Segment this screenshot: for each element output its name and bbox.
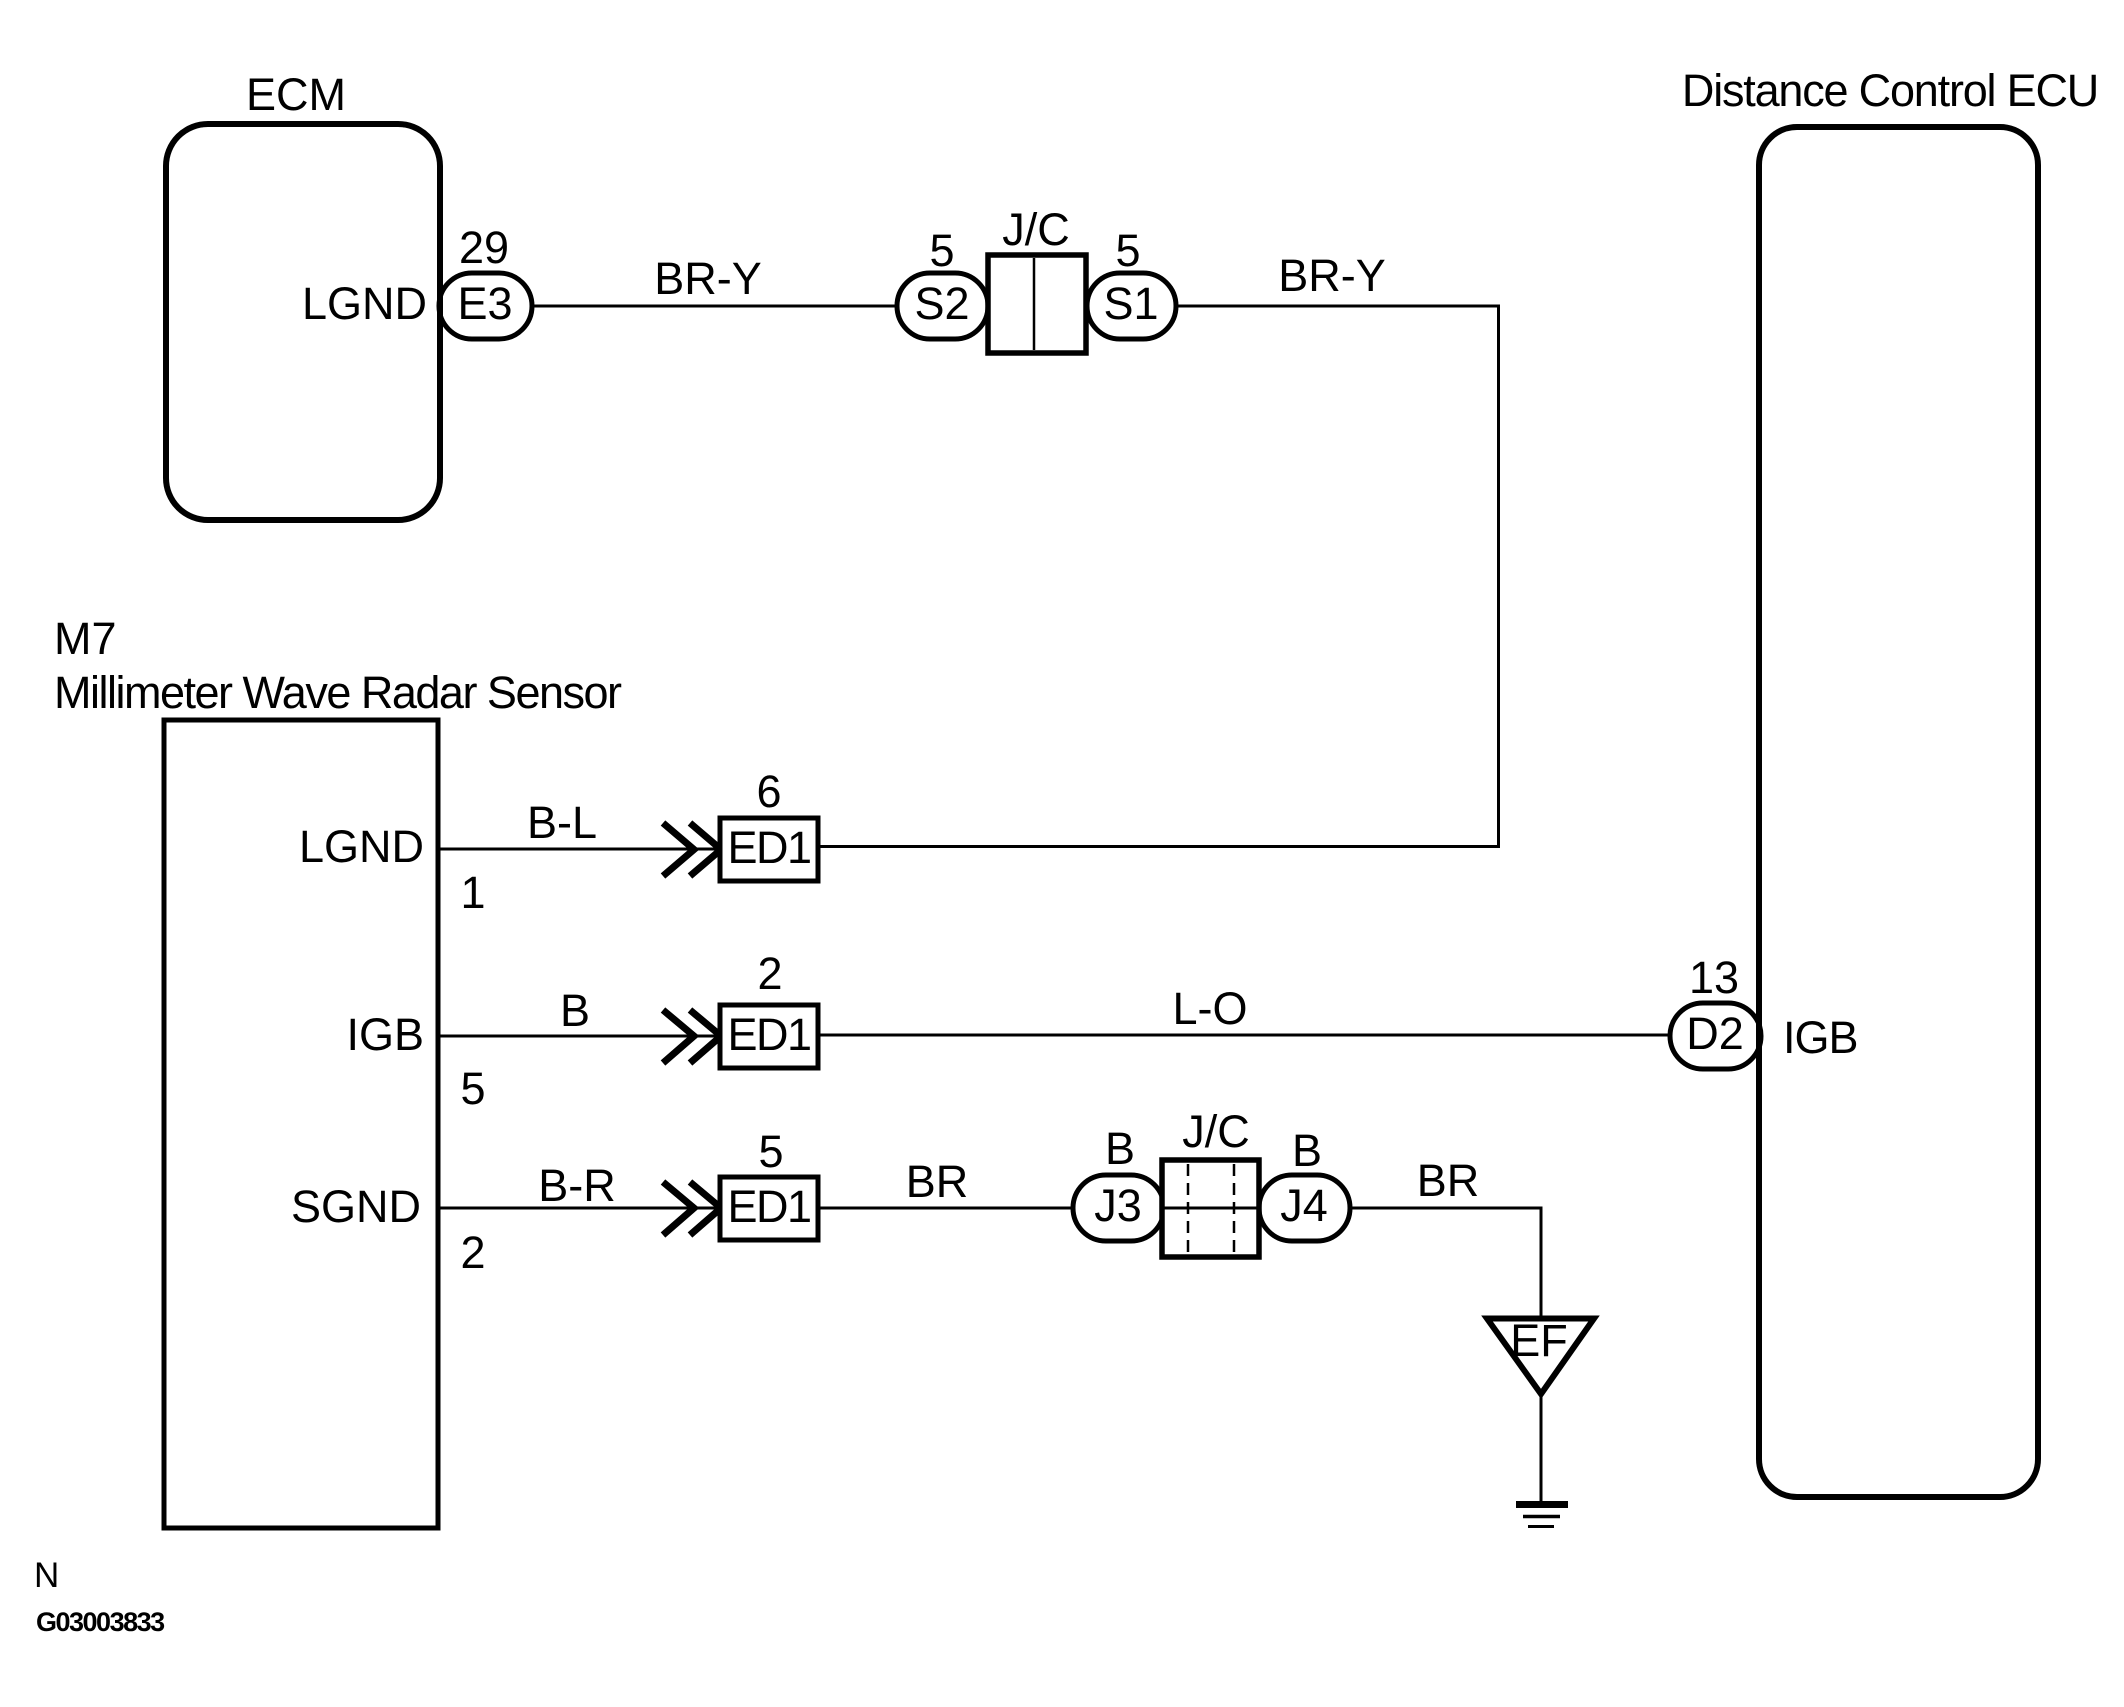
junction box J/C (top): [988, 255, 1086, 353]
splice chevrons row2: [663, 1010, 721, 1063]
wire LGND to ED1: [438, 848, 720, 851]
svg-text:D2: D2: [1686, 1008, 1744, 1059]
wire E3 to S2: [532, 305, 897, 308]
svg-text:S1: S1: [1103, 278, 1158, 329]
svg-text:5: 5: [929, 225, 954, 276]
svg-text:BR: BR: [906, 1156, 969, 1207]
svg-text:J4: J4: [1280, 1180, 1328, 1231]
svg-text:ECM: ECM: [246, 69, 346, 120]
connector S1: [1087, 273, 1176, 339]
wire SGND to ED1: [438, 1207, 720, 1210]
svg-text:2: 2: [460, 1227, 485, 1278]
svg-text:G03003833: G03003833: [36, 1607, 165, 1637]
ground symbol: [1516, 1505, 1568, 1527]
wire ED1 row2 to D2: [818, 1034, 1670, 1037]
connector ED1 row1: [720, 818, 818, 881]
connector ED1 row3: [720, 1177, 818, 1240]
svg-text:IGB: IGB: [1783, 1012, 1858, 1063]
connector J4: [1259, 1175, 1350, 1241]
splice chevrons row1: [663, 823, 721, 876]
svg-text:BR-Y: BR-Y: [654, 253, 762, 304]
connector D2: [1670, 1003, 1761, 1069]
svg-text:ED1: ED1: [727, 822, 810, 873]
wire IGB to ED1: [438, 1035, 720, 1038]
svg-text:B: B: [1292, 1125, 1322, 1176]
svg-text:EF: EF: [1510, 1315, 1568, 1366]
M7 Millimeter Wave Radar Sensor box: [164, 720, 438, 1528]
ECM box: [166, 124, 440, 520]
svg-text:Millimeter Wave Radar Sensor: Millimeter Wave Radar Sensor: [54, 667, 622, 718]
svg-text:B-L: B-L: [527, 797, 597, 848]
svg-text:B: B: [1105, 1123, 1135, 1174]
svg-text:L-O: L-O: [1172, 983, 1247, 1034]
svg-text:29: 29: [459, 222, 509, 273]
svg-text:13: 13: [1689, 952, 1739, 1003]
connector J3: [1073, 1175, 1164, 1241]
svg-text:LGND: LGND: [302, 278, 427, 329]
splice chevrons row3: [663, 1182, 721, 1235]
svg-text:M7: M7: [54, 613, 117, 664]
wire EF to ground: [1540, 1396, 1543, 1503]
svg-text:N: N: [34, 1556, 59, 1595]
wire vertical down to LGND net: [1497, 306, 1500, 847]
svg-text:E3: E3: [457, 278, 512, 329]
connector E3: [439, 273, 532, 339]
svg-text:Distance Control ECU: Distance Control ECU: [1682, 65, 2098, 116]
wire vertical down to EF: [1540, 1208, 1543, 1318]
svg-text:LGND: LGND: [299, 821, 424, 872]
svg-text:6: 6: [756, 766, 781, 817]
svg-text:SGND: SGND: [291, 1181, 421, 1232]
ground triangle EF: [1487, 1315, 1594, 1394]
svg-text:ED1: ED1: [727, 1009, 810, 1060]
wire ED1 row3 to J3: [818, 1207, 1073, 1210]
svg-text:2: 2: [757, 948, 782, 999]
svg-text:5: 5: [1115, 225, 1140, 276]
svg-text:IGB: IGB: [346, 1009, 424, 1060]
svg-text:5: 5: [460, 1063, 485, 1114]
connector S2: [897, 273, 988, 339]
Distance Control ECU box: [1759, 127, 2038, 1497]
svg-text:B: B: [560, 985, 590, 1036]
wire ED1 row1 to corner: [818, 845, 1500, 848]
svg-text:BR-Y: BR-Y: [1278, 250, 1386, 301]
junction box J/C (bottom): [1162, 1160, 1259, 1257]
svg-text:J3: J3: [1094, 1180, 1142, 1231]
svg-text:B-R: B-R: [538, 1160, 616, 1211]
svg-text:1: 1: [460, 867, 485, 918]
svg-text:BR: BR: [1417, 1155, 1480, 1206]
svg-text:S2: S2: [914, 278, 969, 329]
connector ED1 row2: [720, 1005, 818, 1068]
svg-text:J/C: J/C: [1002, 204, 1070, 255]
svg-text:J/C: J/C: [1182, 1106, 1250, 1157]
wire J4 to corner: [1350, 1207, 1543, 1210]
wire S1 to corner: [1176, 305, 1500, 308]
svg-text:5: 5: [758, 1126, 783, 1177]
svg-text:ED1: ED1: [727, 1181, 810, 1232]
